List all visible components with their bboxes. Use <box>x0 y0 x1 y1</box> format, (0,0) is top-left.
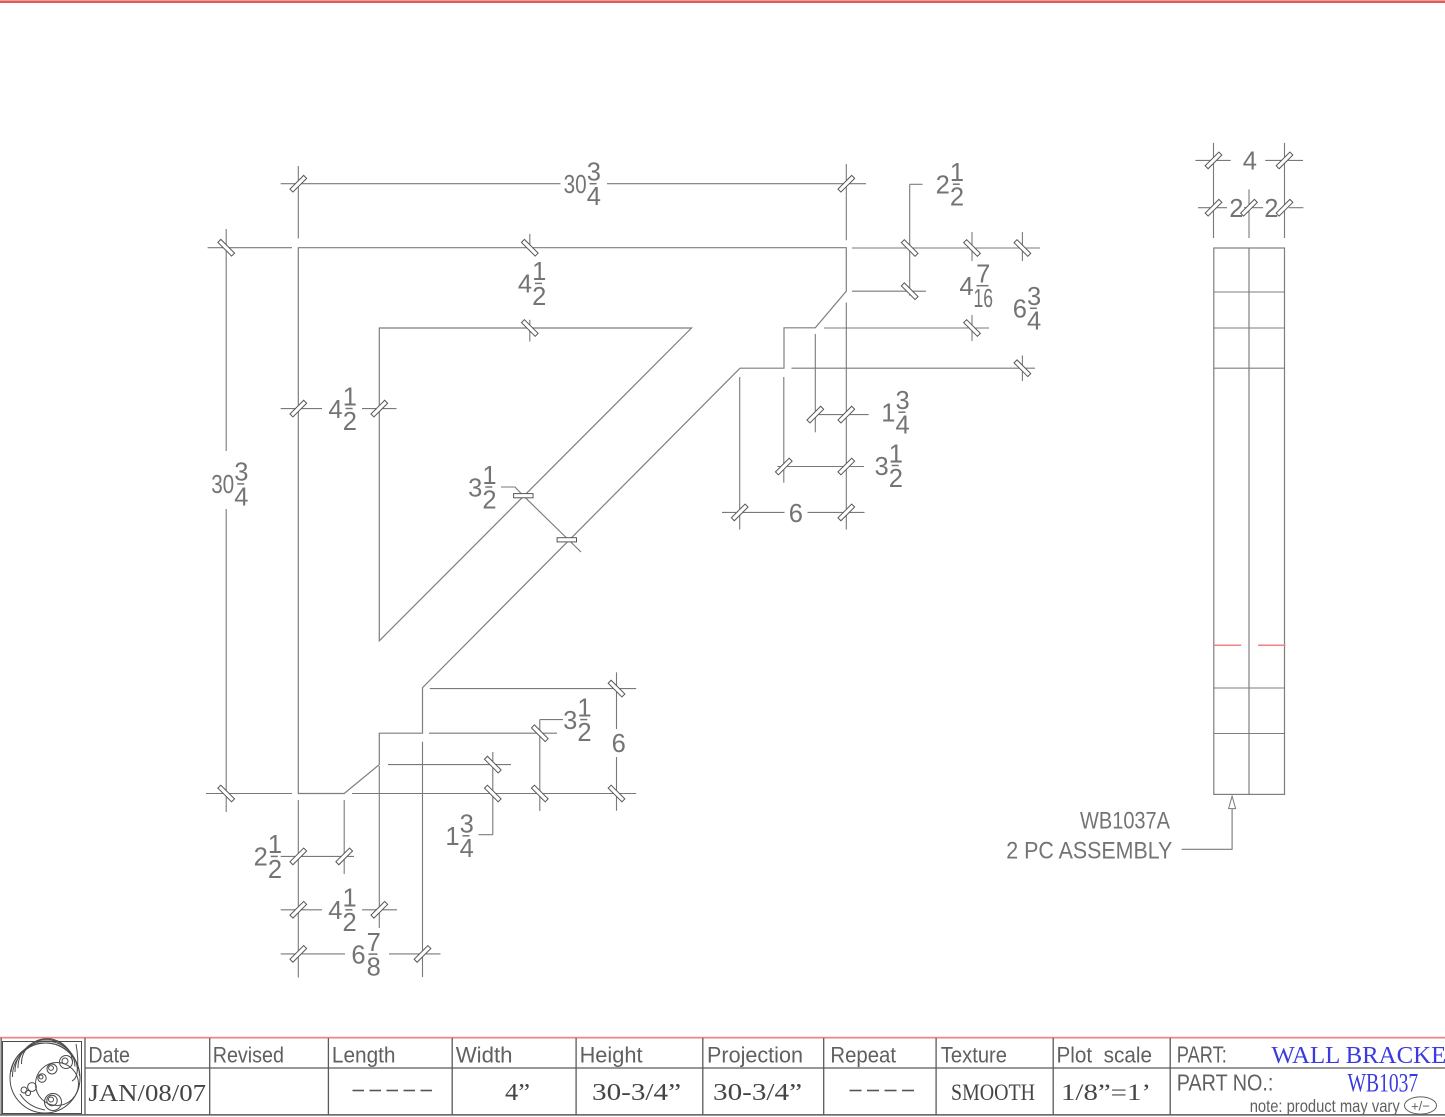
svg-text:3: 3 <box>563 707 577 735</box>
svg-text:3: 3 <box>875 453 889 481</box>
extension lines right of top arm <box>852 247 1040 249</box>
dimension 4 7/16 right <box>971 232 973 261</box>
dimension 1 3/4 upper right <box>814 414 868 416</box>
dimension 30 3/4 left <box>225 229 227 451</box>
svg-text:6: 6 <box>789 500 803 528</box>
svg-text:2: 2 <box>268 856 282 884</box>
svg-text:30: 30 <box>564 171 587 199</box>
svg-text:1: 1 <box>445 823 459 851</box>
svg-text:4: 4 <box>234 483 248 511</box>
svg-text:4”: 4” <box>505 1080 530 1106</box>
svg-text:30-3/4”: 30-3/4” <box>713 1080 802 1106</box>
svg-text:4: 4 <box>518 271 532 299</box>
front view: triangular cutout <box>379 328 691 641</box>
svg-text:2: 2 <box>889 465 903 493</box>
svg-text:2: 2 <box>532 283 546 311</box>
dimension 3 1/2 bottom <box>539 720 541 811</box>
dimension 3 1/2 right <box>777 466 864 468</box>
svg-text:2: 2 <box>482 486 496 514</box>
leader arrow to assembly label <box>1229 796 1236 809</box>
ornamental logo in box <box>3 1039 82 1114</box>
svg-text:1: 1 <box>881 400 895 428</box>
extension lines top dimension <box>297 166 299 239</box>
svg-text:Width: Width <box>456 1043 513 1068</box>
svg-text:PART:: PART: <box>1177 1042 1227 1068</box>
dimension 6 right <box>722 511 785 513</box>
extension verticals below bottom arm <box>297 800 299 978</box>
dimension 4 1/2 left (horizontal) <box>281 408 322 410</box>
svg-text:Height: Height <box>580 1043 644 1068</box>
svg-text:4: 4 <box>587 183 601 211</box>
svg-text:30: 30 <box>211 471 234 499</box>
dimension 6 7/8 bottom <box>281 953 345 955</box>
svg-text:1/8”=1’: 1/8”=1’ <box>1061 1080 1151 1105</box>
svg-text:SMOOTH: SMOOTH <box>951 1080 1035 1105</box>
svg-text:30-3/4”: 30-3/4” <box>592 1080 681 1106</box>
svg-text:JAN/08/07: JAN/08/07 <box>88 1081 206 1107</box>
svg-text:PART NO.:: PART NO.: <box>1177 1070 1274 1096</box>
svg-text:note: product may vary: note: product may vary <box>1250 1096 1400 1116</box>
dimension 6 3/4 right <box>1021 232 1023 261</box>
dimension 4 1/2 top (vertical) <box>529 234 531 247</box>
svg-text:+/−: +/− <box>1411 1099 1430 1114</box>
dimension 2 1/2 top right <box>909 184 911 295</box>
svg-text:Projection: Projection <box>707 1043 803 1068</box>
svg-text:4: 4 <box>1243 148 1257 176</box>
svg-text:2: 2 <box>343 408 357 436</box>
svg-text:Date: Date <box>88 1043 130 1068</box>
svg-text:4: 4 <box>328 897 342 925</box>
dimension 1 3/4 bottom <box>492 752 494 835</box>
svg-text:4: 4 <box>1027 308 1041 336</box>
dimension 30 3/4 top <box>281 183 561 185</box>
svg-text:Revised: Revised <box>213 1043 284 1068</box>
svg-text:3: 3 <box>468 474 482 502</box>
dimension 2 2 side view <box>1198 207 1227 209</box>
svg-text:16: 16 <box>973 285 993 313</box>
side view: step lines <box>1214 291 1285 293</box>
title block red top line <box>0 1037 1445 1039</box>
dimension 4 1/2 bottom <box>281 909 322 911</box>
svg-text:WB1037: WB1037 <box>1348 1069 1419 1098</box>
svg-text:WALL BRACKET: WALL BRACKET <box>1271 1042 1445 1069</box>
svg-text:4: 4 <box>959 273 973 301</box>
title block grid <box>85 1067 1445 1069</box>
svg-text:2: 2 <box>936 172 950 200</box>
extension verticals below top arm <box>845 303 847 530</box>
side view: center joint line <box>1248 248 1250 794</box>
svg-text:Plot scale: Plot scale <box>1057 1043 1153 1068</box>
svg-text:Length: Length <box>332 1043 396 1068</box>
svg-text:2: 2 <box>343 909 357 937</box>
extension lines right of bottom arm <box>430 688 636 690</box>
side view dimension extensions <box>1213 143 1215 238</box>
svg-text:4: 4 <box>896 412 910 440</box>
svg-text:2 PC ASSEMBLY: 2 PC ASSEMBLY <box>1006 838 1172 865</box>
front view: bracket outline <box>298 248 846 794</box>
svg-text:4: 4 <box>460 835 474 863</box>
svg-text:6: 6 <box>1013 296 1027 324</box>
svg-text:Texture: Texture <box>941 1043 1007 1068</box>
svg-text:6: 6 <box>351 941 365 969</box>
svg-text:2: 2 <box>950 184 964 212</box>
dimension 3 1/2 between diagonals <box>501 487 523 496</box>
side view: red centre dashes <box>1214 644 1241 646</box>
side view: 2pc plank outline <box>1214 248 1285 794</box>
svg-text:2: 2 <box>1264 195 1278 223</box>
svg-text:2: 2 <box>1229 195 1243 223</box>
svg-text:2: 2 <box>254 844 268 872</box>
red top border line <box>0 0 1445 3</box>
dimension 2 1/2 bottom <box>281 855 354 857</box>
svg-text:2: 2 <box>577 719 591 747</box>
svg-text:Repeat: Repeat <box>830 1043 896 1068</box>
dimension 4 side view <box>1195 159 1230 161</box>
svg-text:4: 4 <box>328 396 342 424</box>
svg-text:WB1037A: WB1037A <box>1080 808 1170 835</box>
svg-text:6: 6 <box>612 730 626 758</box>
extension lines left dimension <box>208 247 292 249</box>
svg-text:8: 8 <box>367 954 381 982</box>
dimension 6 bottom right (vertical) <box>616 672 618 729</box>
